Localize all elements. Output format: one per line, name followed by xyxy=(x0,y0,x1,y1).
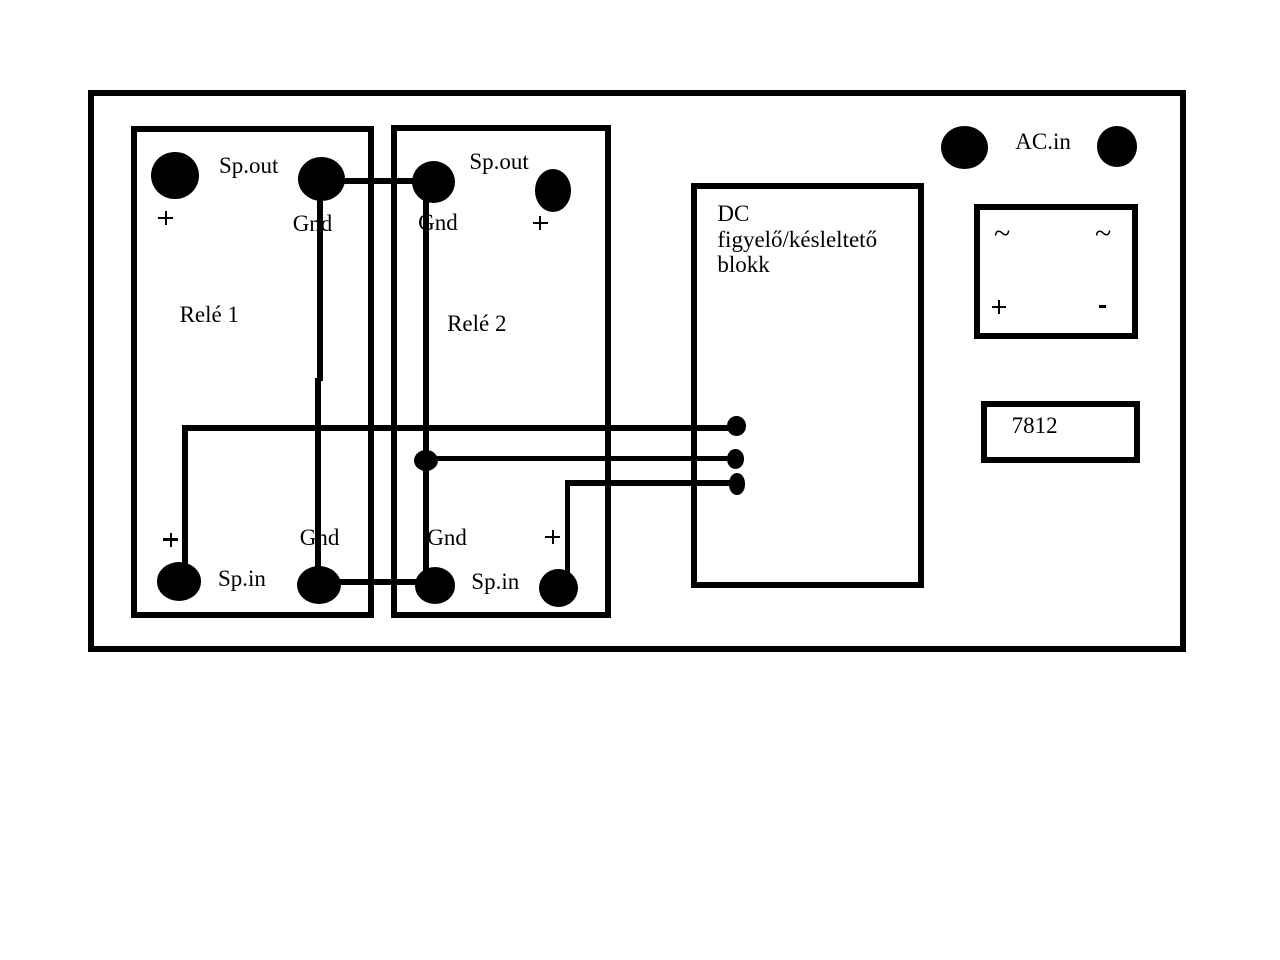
wire Gnd(Relé1) vertical lower segment xyxy=(315,378,321,585)
DC block pin node 2 xyxy=(727,449,744,469)
polarity symbol + (Relé 2 bottom) xyxy=(545,536,560,539)
label Gnd top (Relé 2) xyxy=(418,211,458,234)
label Sp.in (Relé 1) xyxy=(218,567,266,590)
wire Sp.in+(Relé1) vertical xyxy=(182,425,188,575)
wire junction to DC block middle xyxy=(426,456,736,462)
terminal Gnd bottom (Relé 1) xyxy=(297,566,341,604)
label Gnd bottom (Relé 2) xyxy=(427,526,467,549)
label Sp.out (Relé 2) xyxy=(469,150,528,173)
wire Sp.in+(Relé1) horizontal to DC block xyxy=(182,425,737,431)
polarity symbol + (Relé 1 top) xyxy=(158,217,173,220)
wire Gnd(Relé1) vertical upper segment xyxy=(317,179,323,381)
DC monitor/delay block xyxy=(691,183,925,588)
polarity symbol + (Relé 1 bottom) xyxy=(163,538,178,541)
label Gnd bottom (Relé 1) xyxy=(300,526,340,549)
wire Gnd(Relé1) to Gnd(Relé2) top xyxy=(318,178,436,184)
polarity symbol - (transformer DC output) xyxy=(1099,305,1106,308)
terminal Gnd top (Relé 1) xyxy=(298,157,345,201)
relay block Relé 2 xyxy=(391,125,612,618)
terminal AC.in left xyxy=(941,126,988,169)
wire Sp.in+(Relé2) vertical xyxy=(565,480,571,577)
terminal + Sp.out (Relé 2) xyxy=(535,169,571,212)
label Relé 2 xyxy=(447,312,506,335)
terminal + Sp.in (Relé 1) xyxy=(157,562,202,601)
AC symbol ~ right (transformer) xyxy=(1095,219,1111,249)
polarity symbol + (transformer DC output) xyxy=(992,306,1006,309)
AC symbol ~ left (transformer) xyxy=(994,219,1010,249)
outer enclosure border xyxy=(88,90,1186,652)
label DC figyelő/késleltető blokk xyxy=(717,201,877,278)
label Relé 1 xyxy=(180,303,239,326)
terminal Gnd top (Relé 2) xyxy=(412,161,455,204)
wire Sp.in+(Relé2) horizontal to DC block xyxy=(565,480,738,486)
relay block Relé 1 xyxy=(131,126,375,618)
terminal Gnd bottom (Relé 2) xyxy=(415,567,456,604)
DC block pin node 3 xyxy=(729,473,745,494)
label Sp.out (Relé 1) xyxy=(219,154,278,177)
label Sp.in (Relé 2) xyxy=(471,570,519,593)
junction node on Gnd(Relé2) wire xyxy=(414,450,438,471)
polarity symbol + (Relé 2 top) xyxy=(533,222,548,225)
wire Gnd(Relé2) vertical xyxy=(423,182,429,585)
transformer block xyxy=(974,204,1138,339)
label Gnd top (Relé 1) xyxy=(293,212,333,235)
terminal + Sp.out (Relé 1) xyxy=(151,152,199,199)
label 7812 xyxy=(1012,414,1058,437)
DC block pin node 1 xyxy=(727,416,746,436)
7812 regulator block xyxy=(981,401,1140,463)
terminal AC.in right xyxy=(1097,126,1137,167)
label AC.in xyxy=(1015,130,1071,153)
terminal + Sp.in (Relé 2) xyxy=(539,569,578,608)
wire Gnd-Gnd bottom xyxy=(317,579,437,585)
